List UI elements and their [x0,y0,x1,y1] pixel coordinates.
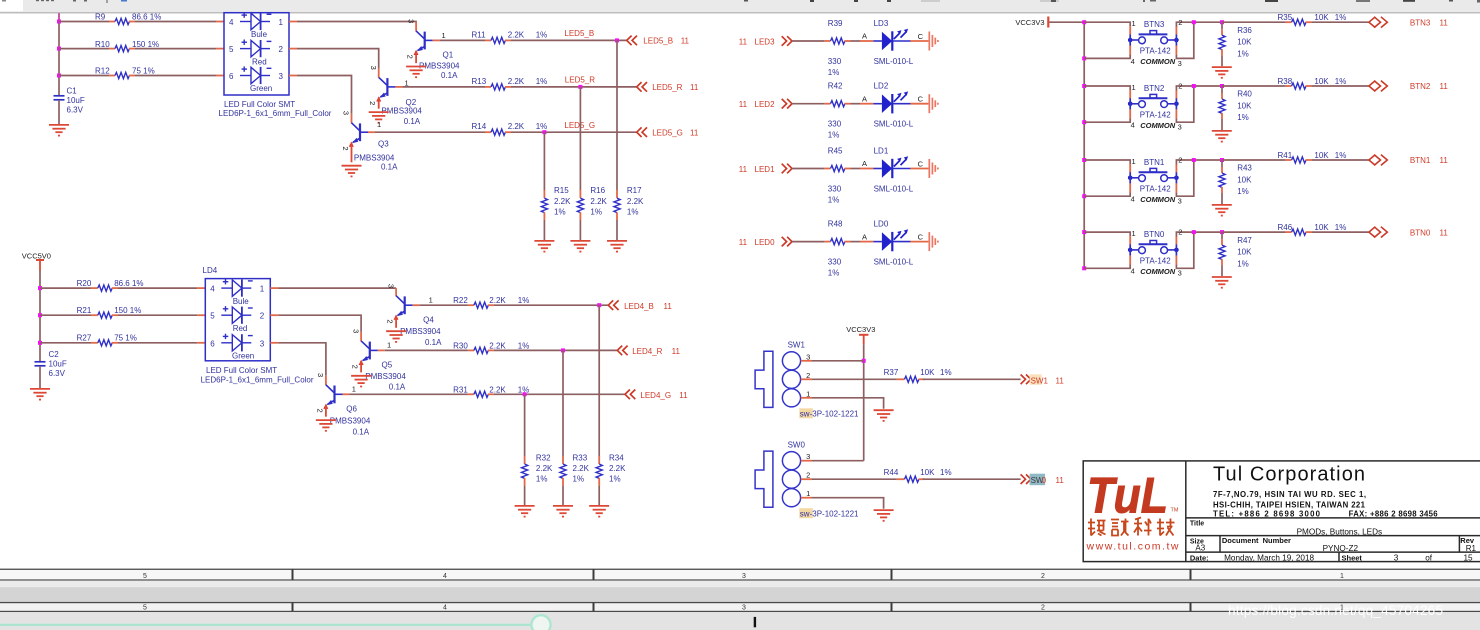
resistor R43 10K pulldown [1219,160,1253,204]
node junction BTN1 pin3 riser [1192,158,1196,162]
svg-text:BTN2: BTN2 [1144,84,1165,93]
wire VCC3V3 down to switches [863,344,865,460]
resistor R33 [560,453,590,505]
svg-text:11: 11 [681,37,690,46]
ground under C2 [30,389,50,400]
svg-text:10K: 10K [920,468,935,477]
svg-text:1%: 1% [1237,259,1249,268]
wire R32 vertical [524,395,526,456]
node junction bus BTN0 pin4 [1082,266,1086,270]
svg-text:R46: R46 [1278,223,1293,232]
wire SW1 pin1 [801,397,812,399]
svg-text:2.2K: 2.2K [609,464,626,473]
svg-text:R35: R35 [1278,13,1293,22]
svg-text:1%: 1% [1335,151,1347,160]
wire BTN2 pin2 [1175,90,1177,99]
wire BTN1 pin2 [1175,164,1177,173]
transistor Q3 (PMBS3904) [341,111,398,171]
pin stubs LD4 right side [270,287,278,289]
LED package LD5 (LED Full Color SMT) [219,12,332,118]
svg-text:sw-3P-102-1221: sw-3P-102-1221 [800,510,859,519]
svg-text:86.6 1%: 86.6 1% [132,13,161,22]
wire R14 to off-page [511,131,637,133]
svg-text:Document Number: Document Number [1222,536,1291,545]
svg-text:86.6 1%: 86.6 1% [114,279,143,288]
resistor R47 10K pulldown [1219,232,1253,276]
svg-text:SML-010-L: SML-010-L [874,120,914,129]
wire button supply bus [1083,22,1085,268]
svg-text:0: 0 [1042,476,1047,485]
svg-text:R12: R12 [95,67,110,76]
wire C2 to ground [39,366,41,388]
power symbol VCC3V3 (switches) [846,325,875,345]
svg-text:LED1: LED1 [755,165,776,174]
ground under Q3 [342,166,362,177]
svg-text:6.3V: 6.3V [67,106,84,115]
wire BTN0 pin2 [1175,236,1177,245]
svg-text:1%: 1% [518,296,530,305]
svg-text:10uF: 10uF [67,96,85,105]
title block company text [1213,464,1438,519]
svg-text:1%: 1% [828,196,840,205]
resistor R12 [59,67,224,79]
svg-text:Q6: Q6 [346,404,357,413]
wire collector feed Q4 [278,287,396,289]
svg-text:LED2: LED2 [755,100,776,109]
ground under R17 [607,241,627,252]
svg-text:330: 330 [828,120,842,129]
TUL logo [1086,468,1179,553]
wire R37 to off-page [923,378,1021,380]
svg-text:1: 1 [442,31,446,40]
resistor R17 [614,186,644,240]
svg-text:Green: Green [232,352,254,361]
svg-text:BTN1: BTN1 [1410,156,1431,165]
svg-text:R43: R43 [1237,164,1252,173]
svg-text:2.2K: 2.2K [508,122,525,131]
svg-text:FAX: +886 2 8698 3456: FAX: +886 2 8698 3456 [1349,510,1439,519]
wire C1 to ground [58,100,60,124]
svg-text:1%: 1% [1237,187,1249,196]
node junction BTN3 pin3 riser [1192,20,1196,24]
svg-text:HSI-CHIH, TAIPEI HSIEN, TAIWAN: HSI-CHIH, TAIPEI HSIEN, TAIWAN 221 [1213,500,1366,509]
svg-text:C: C [918,32,924,41]
resistor R9 [59,13,224,25]
svg-text:C2: C2 [49,350,60,359]
svg-text:0.1A: 0.1A [425,338,442,347]
resistor R11 [440,30,548,43]
svg-text:11: 11 [739,100,748,109]
wire R30 to off-page [494,349,617,351]
LED LD3 (SML-010-L) [862,19,924,66]
svg-text:R30: R30 [453,341,468,350]
power symbol VCC3V3 (buttons) [1015,17,1048,28]
svg-text:3: 3 [279,72,284,81]
slide switch SW0 (sw-3P-102-1221) [755,441,859,519]
svg-text:11: 11 [739,37,748,46]
off-page connector SW1 output [1021,374,1065,385]
svg-text:BTN2: BTN2 [1410,82,1431,91]
svg-text:R14: R14 [472,122,487,131]
svg-text:COMMON: COMMON [1140,57,1176,66]
ground under R40 [1212,131,1232,142]
ground under Q1 [406,67,426,78]
svg-text:1: 1 [279,18,284,27]
svg-text:PMBS3904: PMBS3904 [381,107,422,116]
svg-text:6: 6 [210,339,215,348]
transistor Q5 (PMBS3904) [351,329,407,391]
wire R41 to off-page [1312,159,1369,161]
svg-text:LED5_R: LED5_R [565,76,595,85]
svg-text:C: C [918,233,924,242]
wire SW0 pin3 [801,460,812,462]
ground under Q5 [351,376,371,387]
wire R35 to off-page [1312,21,1369,23]
svg-text:1%: 1% [1335,77,1347,86]
wire BTN2 pin4 [1129,109,1131,119]
resistor R42 330 [828,82,874,140]
svg-text:1: 1 [352,385,356,394]
wire SW1 pin3 [801,360,812,362]
svg-text:2.2K: 2.2K [627,197,644,206]
svg-text:3: 3 [1178,197,1182,206]
ground under R33 [553,506,573,517]
title block frame [1083,461,1480,562]
node junction R47 top [1220,230,1224,234]
off-page connector LED5_R [637,82,699,92]
wire BTN1 pin1 [1084,160,1130,164]
svg-text:5: 5 [210,312,215,321]
svg-text:VCC3V3: VCC3V3 [1015,18,1044,27]
svg-text:TEL: +886 2 8698 3000: TEL: +886 2 8698 3000 [1213,510,1321,519]
wire collector feed Q3 [297,76,352,114]
svg-text:11: 11 [1056,376,1065,385]
svg-text:Monday, March 19, 2018: Monday, March 19, 2018 [1224,553,1314,562]
ground SW1 pin1 [874,410,894,421]
svg-text:10K: 10K [1237,38,1252,47]
off-page connector LED3 input [739,36,792,46]
svg-text:3: 3 [1178,269,1182,278]
svg-text:COMMON: COMMON [1140,195,1176,204]
svg-text:SW1: SW1 [788,341,806,350]
pin stubs LD5 right side [289,21,297,23]
svg-text:5: 5 [143,605,147,612]
svg-text:R27: R27 [77,334,92,343]
ground under R47 [1212,277,1232,288]
wire BTN0 pin4 [1129,255,1131,265]
node junction R20 row [38,286,42,290]
svg-text:PTA-142: PTA-142 [1140,47,1172,56]
svg-text:R39: R39 [828,19,843,28]
ground under Q2 [369,112,389,123]
svg-text:1%: 1% [1335,223,1347,232]
svg-text:1%: 1% [536,30,548,39]
node junction bus BTN1 pin4 [1082,194,1086,198]
resistor R16 [577,186,607,240]
svg-text:R48: R48 [828,220,843,229]
svg-text:LED4_G: LED4_G [640,391,671,400]
svg-text:4: 4 [443,573,447,580]
svg-text:1: 1 [1132,229,1136,238]
svg-text:R13: R13 [472,77,487,86]
slide switch SW1 (sw-3P-102-1221) [755,341,859,419]
svg-text:1: 1 [387,341,391,350]
svg-text:3: 3 [406,19,415,23]
ground under R16 [570,241,590,252]
svg-text:1%: 1% [554,208,566,217]
svg-text:COMMON: COMMON [1140,121,1176,130]
svg-text:3: 3 [742,605,746,612]
svg-text:LD1: LD1 [874,147,889,156]
svg-text:0.1A: 0.1A [389,383,406,392]
off-page connector LED4_B [608,300,672,310]
svg-text:1%: 1% [536,475,548,484]
svg-text:R22: R22 [453,296,468,305]
svg-text:R9: R9 [95,13,106,22]
svg-text:11: 11 [690,83,699,92]
node junction R36 top [1220,20,1224,24]
LED LD1 (SML-010-L) [862,147,924,194]
svg-text:SML-010-L: SML-010-L [874,185,914,194]
svg-text:PMBS3904: PMBS3904 [365,372,406,381]
svg-text:Red: Red [233,324,248,333]
wire collector feed Q1 [297,21,416,23]
wire BTN2 pin3 [1175,109,1177,119]
svg-text:1%: 1% [1237,49,1249,58]
svg-text:3: 3 [742,573,746,580]
node junction LED4_G [523,392,527,396]
svg-text:PYNQ-Z2: PYNQ-Z2 [1323,544,1359,553]
ground under R36 [1212,67,1232,78]
resistor R21 [40,306,205,318]
svg-text:1: 1 [1340,573,1344,580]
page gap [0,581,1480,587]
resistor R27 [40,334,205,346]
LED LD2 (SML-010-L) [862,82,924,129]
svg-text:2.2K: 2.2K [489,385,506,394]
node junction bus BTN1 pin1 [1082,158,1086,162]
svg-text:1%: 1% [573,475,585,484]
svg-text:Q2: Q2 [406,98,417,107]
transistor Q6 (PMBS3904) [315,373,371,437]
node junction LED4_B [597,303,601,307]
svg-text:LED5_B: LED5_B [643,37,673,46]
svg-text:11: 11 [679,391,688,400]
wire LED1 to R45 [792,168,824,170]
wire R17 vertical [616,40,618,190]
off-page connector BTN0 [1369,227,1448,238]
pushbutton BTN1 (PTA-142) [1128,156,1183,206]
svg-text:1%: 1% [627,208,639,217]
svg-text:Red: Red [252,57,267,66]
svg-text:R33: R33 [573,453,588,462]
node junction R21 row [38,313,42,317]
wire BTN3 pin1 [1084,22,1130,26]
off-page connector LED0 input [739,237,792,247]
node junction R27 row [38,341,42,345]
svg-text:R32: R32 [536,453,551,462]
resistor R14 [375,122,547,135]
svg-text:C1: C1 [67,87,78,96]
svg-text:75 1%: 75 1% [114,334,137,343]
svg-text:11: 11 [1440,82,1449,91]
svg-text:2: 2 [1041,573,1045,580]
resistor R37 10K [884,368,952,382]
svg-text:https://blog.csdn.net/qq_45704: https://blog.csdn.net/qq_45704265 [1228,603,1443,618]
ground SW0 pin1 [874,510,894,521]
wire LED2 to R42 [792,103,824,105]
ground under R43 [1212,205,1232,216]
svg-text:1%: 1% [590,208,602,217]
svg-text:PMBS3904: PMBS3904 [354,153,395,162]
resistor R48 330 [828,220,874,278]
svg-text:LD0: LD0 [874,220,889,229]
node junction R40 top [1220,84,1224,88]
svg-text:2: 2 [368,101,377,105]
transistor Q1 (PMBS3904) [406,19,461,80]
svg-text:3: 3 [1178,123,1182,132]
svg-text:3: 3 [386,284,395,288]
pushbutton BTN0 (PTA-142) [1128,228,1183,278]
node junction LED5_G [542,130,546,134]
wire R38 to off-page [1312,85,1369,87]
capacitor C2 [35,350,67,378]
wire cathode LD0 [910,241,928,243]
svg-text:2.2K: 2.2K [508,77,525,86]
svg-text:2: 2 [386,319,395,323]
wire R15 vertical [543,132,545,190]
wire LED0 to R48 [792,241,824,243]
svg-text:1: 1 [260,285,265,294]
svg-text:1%: 1% [828,269,840,278]
svg-text:R11: R11 [472,30,487,39]
svg-text:75 1%: 75 1% [132,67,155,76]
svg-text:SML-010-L: SML-010-L [874,258,914,267]
bottom margin area [0,612,1480,630]
svg-text:4: 4 [1131,121,1135,130]
svg-text:R40: R40 [1237,90,1252,99]
sheet zone ruler (bottom of page) [0,569,1480,581]
svg-text:1: 1 [377,120,381,129]
svg-text:BTN0: BTN0 [1410,228,1431,237]
svg-text:PTA-142: PTA-142 [1140,110,1172,119]
svg-text:Q1: Q1 [443,51,454,60]
svg-text:11: 11 [672,347,681,356]
svg-text:TM: TM [1171,508,1179,514]
node junction bus BTN3 pin4 [1082,56,1086,60]
ground under R15 [534,241,554,252]
svg-text:10K: 10K [1237,176,1252,185]
svg-text:R44: R44 [884,468,899,477]
svg-text:11: 11 [739,165,748,174]
svg-text:3: 3 [1394,553,1399,562]
svg-text:2: 2 [1041,605,1045,612]
node junction bus BTN3 pin1 [1082,20,1086,24]
svg-text:LED5_G: LED5_G [652,128,683,137]
svg-text:A: A [862,232,867,241]
svg-text:7F-7,NO.79, HSIN TAI WU RD. SE: 7F-7,NO.79, HSIN TAI WU RD. SEC 1, [1213,490,1366,499]
svg-text:LED6P-1_6x1_6mm_Full_Color: LED6P-1_6x1_6mm_Full_Color [201,376,314,385]
wire cathode LD1 [910,168,928,170]
text cursor mark [754,617,756,627]
svg-text:LED3: LED3 [755,37,776,46]
svg-text:1%: 1% [1237,113,1249,122]
svg-text:BTN0: BTN0 [1144,230,1165,239]
svg-text:C: C [918,160,924,169]
wire cathode LD3 [910,40,928,42]
svg-text:of: of [1425,553,1433,562]
svg-text:10K: 10K [1314,151,1329,160]
off-page connector LED5_B [627,36,690,46]
wire collector feed Q6 [278,343,326,376]
resistor R32 [522,453,554,505]
off-page connector LED1 input [739,164,792,174]
node junction R9 row [57,20,61,24]
svg-text:2.2K: 2.2K [554,197,571,206]
svg-text:11: 11 [1440,156,1449,165]
svg-text:3: 3 [342,111,351,115]
svg-text:330: 330 [828,57,842,66]
node junction R43 top [1220,158,1224,162]
svg-text:5: 5 [229,45,234,54]
resistor R45 330 [828,147,874,205]
svg-text:1: 1 [1132,19,1136,28]
wire VCC3V3 to bus [1049,21,1084,23]
svg-text:3: 3 [1178,59,1182,68]
node junction LED5_B [615,38,619,42]
svg-text:2.2K: 2.2K [536,464,553,473]
wire BTN3 pin2 [1175,26,1177,35]
svg-text:11: 11 [739,238,748,247]
svg-text:0.1A: 0.1A [441,71,458,80]
node junction BTN2 pin3 riser [1192,84,1196,88]
svg-text:LED0: LED0 [755,238,776,247]
svg-text:R15: R15 [554,186,569,195]
svg-text:0.1A: 0.1A [353,428,370,437]
off-page connector LED4_R [617,346,680,356]
off-page connector BTN2 [1369,81,1448,92]
wire SW0 pin1 [801,497,812,499]
svg-text:TuL: TuL [1087,468,1168,524]
svg-text:A: A [862,32,867,41]
svg-text:SW0: SW0 [788,441,806,450]
svg-text:6: 6 [229,72,234,81]
svg-text:LED6P-1_6x1_6mm_Full_Color: LED6P-1_6x1_6mm_Full_Color [219,109,332,118]
svg-text:2.2K: 2.2K [590,197,607,206]
node junction SW1 pin3 [862,359,866,363]
svg-text:Date:: Date: [1190,553,1209,562]
svg-text:Green: Green [250,84,272,93]
transistor Q4 (PMBS3904) [386,284,443,347]
svg-text:2: 2 [1178,18,1182,27]
svg-text:3: 3 [369,66,378,70]
node junction bus BTN0 pin1 [1082,230,1086,234]
svg-text:4: 4 [210,285,215,294]
svg-text:1%: 1% [518,341,530,350]
node junction BTN0 pin3 riser [1192,230,1196,234]
svg-text:10uF: 10uF [49,360,67,369]
svg-text:2: 2 [1178,228,1182,237]
svg-text:Q3: Q3 [378,140,389,149]
svg-text:2: 2 [406,55,415,59]
wire R46 to off-page [1312,231,1369,233]
wire BTN0 pin3 [1175,255,1177,265]
off-page connector LED4_G [625,390,688,400]
svg-text:LED Full Color SMT: LED Full Color SMT [206,366,277,375]
resistor R30 [385,341,530,353]
svg-text:Bule: Bule [251,30,268,39]
svg-text:LD4: LD4 [203,266,218,275]
